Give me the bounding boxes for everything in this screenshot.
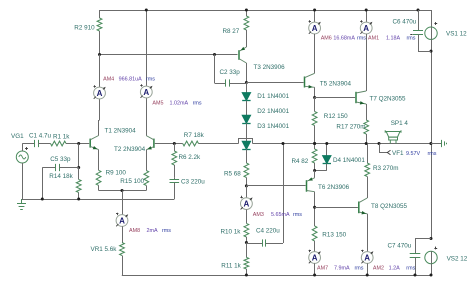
svg-text:R14 18k: R14 18k: [49, 173, 73, 180]
wire VG1 to ground: [22, 163, 24, 199]
resistor VR1: [122, 226, 124, 242]
svg-text:VG1: VG1: [11, 133, 24, 140]
svg-text:R7 18k: R7 18k: [184, 132, 205, 139]
transistor T7: [355, 92, 357, 103]
node output speaker tap: [378, 142, 381, 145]
svg-text:C3 220u: C3 220u: [181, 179, 205, 186]
ammeter AM2: [367, 214, 369, 252]
resistor R7: [183, 141, 199, 146]
wire to T7 base: [315, 97, 356, 99]
svg-text:T5 2N3904: T5 2N3904: [320, 81, 352, 88]
svg-text:AM1: AM1: [368, 36, 379, 42]
node T1 base: [77, 142, 80, 145]
wire ground rail (input stage): [22, 199, 175, 201]
wire emitter join: [99, 190, 147, 192]
svg-text:R2 910: R2 910: [74, 25, 95, 32]
svg-text:A: A: [363, 24, 369, 33]
wire T1 emitter: [98, 150, 100, 171]
wire bias to T5 base: [246, 82, 303, 84]
node T6 base tap: [245, 184, 248, 187]
resistor R11: [246, 243, 248, 258]
svg-text:1.2A: 1.2A: [389, 266, 400, 272]
svg-text:rms: rms: [355, 266, 364, 272]
svg-text:R9 100: R9 100: [106, 169, 127, 176]
transistor T8: [358, 202, 360, 214]
svg-text:T1 2N3904: T1 2N3904: [105, 128, 137, 135]
wire T1 collector rail y55: [100, 54, 238, 56]
svg-text:T7 Q2N3055: T7 Q2N3055: [370, 96, 407, 103]
transistor T3: [238, 50, 240, 60]
resistor R2: [99, 10, 101, 18]
wire to T8 base: [315, 207, 358, 209]
svg-text:rms: rms: [406, 266, 415, 272]
resistor R13: [314, 226, 316, 228]
svg-text:A: A: [312, 253, 318, 262]
svg-text:R5 68: R5 68: [224, 170, 241, 177]
svg-text:A: A: [312, 24, 318, 33]
diode D1: [246, 83, 248, 93]
svg-text:A: A: [119, 216, 125, 225]
svg-text:R12 150: R12 150: [324, 113, 348, 120]
svg-text:C6 470u: C6 470u: [393, 19, 417, 26]
diode D2: [246, 114, 248, 116]
svg-text:T3 2N3906: T3 2N3906: [254, 64, 286, 71]
svg-text:A: A: [364, 253, 370, 262]
wire C5 ground leg: [42, 168, 44, 200]
source VG1: [16, 151, 28, 163]
ammeter AM4: [99, 55, 101, 88]
ammeter AM6: [314, 10, 316, 22]
svg-text:T6 2N3906: T6 2N3906: [318, 184, 350, 191]
wire T5 emitter to node: [314, 87, 316, 97]
svg-text:D1 1N4001: D1 1N4001: [257, 93, 289, 100]
svg-text:R1 1k: R1 1k: [53, 133, 70, 140]
node ground rail tap: [429, 142, 432, 145]
svg-text:D4 1N4001: D4 1N4001: [333, 157, 365, 164]
node T5 emitter: [313, 96, 316, 99]
node bootstrap top: [282, 142, 285, 145]
svg-text:rms: rms: [407, 36, 416, 42]
diode D3: [246, 140, 248, 142]
svg-text:C2 33p: C2 33p: [220, 69, 241, 76]
capacitor C1: [31, 143, 34, 145]
diode D4: [326, 144, 328, 156]
wire T6 emitter up: [314, 171, 316, 178]
svg-text:AM8: AM8: [129, 228, 140, 234]
node bootstrap: [245, 241, 248, 244]
node R12 bottom: [313, 142, 316, 145]
svg-text:C7 470u: C7 470u: [388, 242, 412, 249]
svg-text:SP1 4: SP1 4: [391, 120, 409, 127]
resistor R4: [314, 144, 316, 150]
wire T2 emitter: [146, 150, 148, 171]
wire C2 drop: [214, 55, 216, 84]
svg-text:5.65mA: 5.65mA: [271, 212, 290, 218]
svg-text:AM6: AM6: [321, 36, 332, 42]
resistor R17: [366, 104, 368, 120]
svg-text:R3 270m: R3 270m: [373, 165, 399, 172]
svg-text:1.02mA: 1.02mA: [170, 100, 189, 106]
source VS1: [425, 27, 437, 39]
svg-text:A: A: [97, 89, 103, 98]
wire T6 collector down: [314, 192, 316, 226]
node T6 emitter: [313, 169, 316, 172]
resistor R10: [246, 210, 248, 224]
resistor R3: [367, 144, 369, 164]
ground input: [21, 199, 23, 203]
svg-text:9.57V: 9.57V: [406, 151, 420, 157]
svg-text:R10 1k: R10 1k: [221, 229, 242, 236]
wire input node down: [78, 144, 80, 168]
node T8 base tap: [313, 206, 316, 209]
node T3 collector: [245, 81, 248, 84]
ammeter AM7: [309, 252, 321, 264]
source VS2: [425, 251, 437, 263]
wire right mid rail: [431, 10, 433, 27]
svg-text:rms: rms: [293, 212, 302, 218]
ammeter AM1: [366, 10, 368, 22]
node tail: [121, 189, 124, 192]
svg-text:D2 1N4001: D2 1N4001: [257, 108, 289, 115]
wire output/feedback rail with hop over diode chain: [174, 143, 182, 145]
svg-text:rms: rms: [357, 36, 366, 42]
svg-text:rms: rms: [162, 228, 171, 234]
svg-text:16.68mA: 16.68mA: [333, 36, 355, 42]
resistor R14: [78, 168, 80, 180]
svg-text:rms: rms: [428, 151, 437, 157]
svg-text:VF1: VF1: [392, 150, 404, 157]
resistor R1: [45, 143, 51, 145]
capacitor C2: [215, 83, 226, 85]
svg-text:R15 100: R15 100: [120, 178, 144, 185]
svg-text:A: A: [244, 200, 250, 209]
svg-text:2mA: 2mA: [147, 228, 158, 234]
capacitor C6: [417, 9, 420, 12]
speaker SP1: [385, 130, 401, 143]
svg-text:R11 1k: R11 1k: [221, 263, 241, 270]
capacitor C5: [42, 167, 55, 169]
svg-text:VS1 12: VS1 12: [446, 31, 467, 38]
svg-text:A: A: [143, 88, 149, 97]
transistor T1: [89, 139, 91, 148]
ammeter AM3: [246, 186, 248, 198]
wire input node to T1 base: [79, 143, 90, 145]
svg-text:7.9mA: 7.9mA: [334, 266, 350, 272]
node output R17/R3: [365, 142, 368, 145]
svg-text:AM4: AM4: [103, 76, 114, 82]
svg-text:R6 2.2k: R6 2.2k: [179, 154, 202, 161]
svg-text:AM3: AM3: [253, 212, 264, 218]
svg-text:T8 Q2N3055: T8 Q2N3055: [371, 203, 408, 210]
ground right: [431, 143, 442, 145]
ammeter AM8: [116, 215, 128, 227]
transistor T6: [306, 180, 308, 192]
svg-text:R17 270m: R17 270m: [336, 124, 365, 131]
capacitor C7: [415, 238, 431, 240]
minus C6: [410, 34, 412, 36]
svg-text:R4 82: R4 82: [292, 158, 309, 165]
svg-text:rms: rms: [146, 76, 155, 82]
node C2 tap: [213, 53, 216, 56]
node R2 bottom: [98, 53, 101, 56]
transistor T5: [304, 77, 306, 88]
capacitor C3: [174, 177, 176, 179]
svg-text:VS2 12: VS2 12: [447, 256, 468, 263]
wire to T6 base: [246, 185, 305, 187]
resistor R6: [174, 144, 176, 152]
svg-text:AM5: AM5: [152, 100, 163, 106]
transistor T2: [153, 139, 155, 148]
svg-text:C4 220u: C4 220u: [256, 228, 280, 235]
svg-text:AM7: AM7: [317, 266, 328, 272]
svg-text:R13 150: R13 150: [322, 231, 346, 238]
svg-text:D3 1N4001: D3 1N4001: [257, 123, 289, 130]
node VS1 bottom: [430, 50, 433, 53]
resistor R9: [98, 170, 100, 172]
wire bootstrap riser: [283, 144, 285, 244]
svg-text:C1 4.7u: C1 4.7u: [29, 133, 52, 140]
svg-text:T2 2N3904: T2 2N3904: [114, 146, 146, 153]
wire positive supply top rail: [100, 10, 432, 12]
resistor R5: [246, 163, 248, 165]
wire T1 collector up: [98, 120, 100, 136]
svg-text:rms: rms: [193, 100, 202, 106]
wire R4/D4 join: [315, 170, 327, 172]
resistor R8: [246, 10, 248, 16]
wire T2 base: [155, 143, 175, 145]
wire negative supply bottom rail: [122, 275, 431, 277]
node C5/R14: [77, 166, 80, 169]
svg-text:C5 33p: C5 33p: [50, 156, 71, 163]
capacitor C4: [246, 243, 262, 245]
svg-text:1.18A: 1.18A: [386, 36, 400, 42]
resistor R15: [146, 170, 148, 172]
svg-text:R8 27: R8 27: [223, 28, 240, 35]
ammeter AM5: [140, 86, 152, 98]
node T2 collector top rail: [145, 9, 148, 12]
node VS2 top: [430, 237, 433, 240]
wire tail down: [122, 191, 124, 215]
node feedback/T2 base: [173, 142, 176, 145]
svg-text:VR1 5.6k: VR1 5.6k: [91, 246, 118, 253]
wire T2 collector riser: [146, 10, 148, 86]
svg-text:966.81uA: 966.81uA: [119, 76, 142, 82]
wire T3 collector down: [246, 63, 248, 83]
svg-text:AM2: AM2: [373, 266, 384, 272]
resistor R12: [314, 98, 316, 112]
voltage pin VF1: [379, 144, 381, 153]
